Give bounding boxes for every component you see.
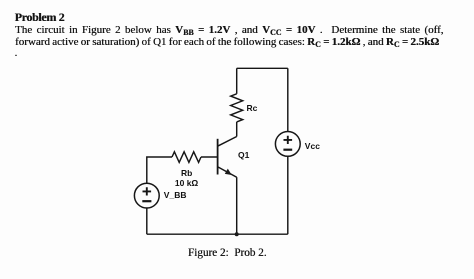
wire base (201, 156, 218, 158)
wire Vcc bottom lead (287, 156, 289, 234)
label Vcc (305, 141, 320, 151)
wire Rc top lead (236, 68, 238, 94)
source V_BB plus (143, 187, 152, 195)
wire emitter vertical (236, 177, 238, 234)
label Rc (247, 103, 258, 113)
label V_BB (164, 190, 187, 200)
wire Rc bottom lead / collector vertical (236, 122, 238, 137)
source V_BB minus (142, 200, 151, 202)
source Vcc plus (284, 136, 293, 144)
wire top horizontal (237, 67, 288, 69)
source Vcc circle (275, 132, 300, 157)
label Rb (181, 168, 192, 178)
figure caption (188, 247, 267, 259)
paragraph line 2 (15, 36, 439, 48)
wire left bottom (VBB to ground rail) (146, 208, 148, 234)
label Q1 (238, 150, 249, 160)
resistor Rb (172, 152, 201, 163)
source Vcc minus (283, 149, 292, 151)
wire Vcc top lead (287, 68, 289, 131)
wire bottom horizontal (147, 233, 288, 235)
transistor Q1 emitter arrow (225, 169, 232, 175)
resistor Rc (231, 94, 243, 122)
wire left top (VBB to Rb) (147, 157, 172, 183)
paragraph line 3 (lone period) (15, 47, 18, 59)
transistor Q1 emitter diagonal (218, 167, 237, 177)
junction node (235, 232, 239, 236)
source V_BB circle (134, 183, 159, 208)
transistor Q1 collector diagonal (218, 137, 237, 147)
label Rb value (175, 178, 198, 188)
paragraph line 1 (15, 24, 443, 36)
transistor Q1 base bar (217, 139, 219, 175)
problem heading (15, 10, 65, 25)
